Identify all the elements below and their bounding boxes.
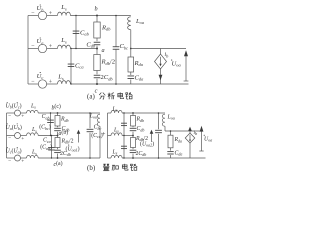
svg-text:Cca: Cca <box>43 138 51 144</box>
inductor Ls Ua(Ub) <box>27 133 39 136</box>
wire Uc to Ls <box>47 83 58 85</box>
(b)-right wire Cda down <box>170 155 172 158</box>
svg-text:Loa: Loa <box>167 115 175 121</box>
(b)-right capacitor Cbc <box>155 129 162 131</box>
(b)-right wire rail-Rda <box>170 131 172 135</box>
inductor Ls (b)-right row a <box>111 133 122 136</box>
svg-text:Ls: Ls <box>30 103 36 109</box>
capacitor Cca wire <box>70 49 72 85</box>
(b)-right resistor Rdb/2 <box>131 138 136 148</box>
capacitor Cdb <box>94 41 101 43</box>
(b)-right wire <box>132 154 134 158</box>
(b)-right wire <box>132 136 134 138</box>
wire (b)-right row b right <box>122 112 165 114</box>
(b)-right junction capline bottom <box>123 157 124 158</box>
(b)-right wire Loa down <box>164 126 166 131</box>
(b)-left capacitor 2Cdb <box>54 149 61 151</box>
output top rail wire <box>131 48 186 50</box>
(b)-left wire Rdb-Cdb <box>57 126 59 127</box>
(b)-right Uoa2 arrow <box>151 134 153 143</box>
(b)-right junction mid <box>132 135 134 137</box>
(b)-right ib up arrowhead <box>188 127 192 131</box>
wire (b)-right row a right <box>122 135 133 137</box>
junction Cab row a <box>75 48 76 49</box>
(b)-left Cab wire <box>50 113 52 136</box>
wire Loa down to rail <box>130 30 132 49</box>
(b)-right junction capline top <box>123 112 124 113</box>
svg-text:b: b <box>94 5 97 12</box>
(b)-right Uoa bottom tick <box>199 150 203 152</box>
(b)-right dependent source ib diamond <box>185 133 195 143</box>
(b)-right wire rail-ib <box>189 131 191 133</box>
dependent source ib diamond <box>155 54 167 69</box>
(b)-right junction top <box>132 112 134 114</box>
wire Ua(Ub) left <box>7 135 15 137</box>
svg-text:+: + <box>21 113 24 119</box>
svg-text:Rda: Rda <box>174 137 183 143</box>
(b)-left wire b to Rdb <box>57 113 59 116</box>
wire Rdb to Cdb <box>96 38 98 41</box>
inductor Loa <box>128 17 131 30</box>
wire (b)-right row a <box>108 135 112 137</box>
svg-text:Ua(Ub): Ua(Ub) <box>6 124 22 131</box>
(b)-right junction rail-Rda <box>170 130 172 132</box>
wire b-row to Loa corner <box>70 15 130 17</box>
wire a-row left <box>28 48 38 50</box>
circuit (a) left rail wire <box>27 16 29 85</box>
inductor Ls Ub(Uc) <box>27 110 39 113</box>
wire c-row left <box>28 83 38 85</box>
capacitor Cbc wire lower <box>115 49 117 84</box>
(b)-left node c(a) <box>57 157 59 159</box>
svg-text:2Cdb: 2Cdb <box>136 151 147 157</box>
svg-text:+: + <box>21 158 24 164</box>
wire b to Rdb <box>96 16 98 23</box>
(b)-left inductor Loa <box>97 114 100 126</box>
(b)-right wire <box>170 148 172 151</box>
voltage source Ub(Uc) <box>15 110 21 116</box>
capacitor Cbc <box>113 46 120 48</box>
capacitor Cab <box>73 30 80 32</box>
wire Cdb to node a <box>96 46 98 49</box>
(b)-right Uoa2 arrowhead <box>150 130 154 134</box>
(b)-right junction Cbc bottom <box>158 157 160 159</box>
svg-text:+: + <box>102 130 106 138</box>
(b)-right wire b-Rdb <box>132 113 134 116</box>
(b)-left Cbc wire lower <box>89 133 91 158</box>
wire Uc(Ua) right <box>38 157 100 159</box>
(b)-left wire Rdb2-2Cdb <box>57 148 59 150</box>
bottom rail node c wire <box>70 83 188 85</box>
(b)-left rail wire <box>6 113 8 158</box>
voltage source Uc(Ua) <box>15 155 21 161</box>
(b)-left capacitor Cbc <box>87 128 94 130</box>
wire Rda to Cda <box>130 72 132 75</box>
svg-text:Rdb/2: Rdb/2 <box>61 138 74 144</box>
(b)-right capacitor 2Cdb <box>130 149 137 151</box>
capacitor Cda <box>128 75 135 77</box>
node c <box>96 83 98 85</box>
(b)-right capacitor Cda <box>167 151 173 153</box>
svg-text:(b): (b) <box>87 164 96 172</box>
junction Cab row b <box>75 15 76 16</box>
junction Cca row a <box>70 48 71 49</box>
Uoa arrow line <box>185 56 187 81</box>
(b)-right Uoa arrow line <box>201 132 203 152</box>
node b <box>96 15 98 17</box>
(b)-right resistor Rdb <box>131 116 136 127</box>
node a <box>96 48 98 50</box>
(b)-left capacitor Cca <box>48 147 55 149</box>
(b)-right capacitor Cca <box>121 145 127 147</box>
(b)-right junction Cbc top <box>158 112 160 114</box>
inductor Ls (b)-right row c rail <box>111 155 122 158</box>
svg-text:Ls: Ls <box>113 127 119 133</box>
svg-text:Loa: Loa <box>89 114 97 120</box>
(b)-right Cbc wire lower <box>158 134 160 158</box>
inductor Ls row c <box>58 81 71 84</box>
ib current arrowhead <box>159 75 163 80</box>
svg-text:a(b): a(b) <box>59 129 69 137</box>
(b)-right Cca wire <box>123 136 125 159</box>
wire Cda to bottom rail <box>130 80 132 85</box>
wire Rdb2 to 2Cdb <box>96 71 98 75</box>
(b)-right capacitor Cab <box>121 122 127 124</box>
(b)-right output rail wire <box>165 130 202 132</box>
ib internal arrow <box>160 57 162 65</box>
wire Ub(Uc) left <box>7 112 15 114</box>
capacitor Cab wire <box>75 16 77 49</box>
svg-text:Rdb: Rdb <box>60 117 69 123</box>
(b)-left wire a-Rdb2 <box>57 136 59 138</box>
(b)-left Uoa1 arrowhead <box>77 130 81 134</box>
(b)-left resistor Rdb <box>55 116 60 127</box>
wire a-row to node a <box>70 48 97 50</box>
svg-text:Uc(Ua): Uc(Ua) <box>6 147 22 154</box>
svg-text:Ub(Uc): Ub(Uc) <box>6 103 22 110</box>
resistor Rdb <box>94 22 100 38</box>
Uoa bottom tick <box>184 80 189 82</box>
svg-text:Ls: Ls <box>31 127 37 133</box>
svg-text:−: − <box>8 113 11 119</box>
(b)-left junction Cbc bottom <box>89 157 91 159</box>
(b)-left junction Cbc top <box>89 112 91 114</box>
wire rail to Rda <box>130 49 132 58</box>
svg-text:+: + <box>21 136 24 142</box>
resistor Rdb/2 <box>94 55 100 71</box>
inductor Ls row a <box>58 45 71 48</box>
(b)-left junction Cab top <box>50 112 51 113</box>
svg-text:Rdb: Rdb <box>136 117 145 123</box>
wire (b)-right row b <box>108 112 112 114</box>
(b)-right resistor Rda <box>168 135 173 148</box>
(b)-left capacitor Cab <box>47 119 54 121</box>
(b)-right junction bottom <box>132 157 134 159</box>
(b)-left wire Cdb-a <box>57 132 59 136</box>
svg-text:(a): (a) <box>87 92 95 100</box>
voltage source Ub <box>38 11 46 19</box>
capacitor Cbc wire upper <box>115 16 117 47</box>
capacitor Cca <box>68 63 75 65</box>
resistor Rda <box>128 57 134 72</box>
(b)-left junction Cca bottom <box>51 157 52 158</box>
(b)-right wire <box>132 148 134 150</box>
wire (b)-right row c rail <box>108 157 112 159</box>
wire b-row left <box>28 15 38 17</box>
svg-text:b(c): b(c) <box>52 103 61 111</box>
svg-text:Cab: Cab <box>42 114 50 120</box>
wire Uc(Ua) left <box>7 157 15 159</box>
(b)-right wire ib down <box>189 143 191 158</box>
svg-text:a: a <box>102 47 105 54</box>
(b)-left Cca wire <box>51 136 53 159</box>
svg-text:−: − <box>8 136 11 142</box>
(b)-left capacitor Cdb <box>54 127 61 129</box>
voltage source Ua(Ub) <box>15 133 21 139</box>
(b)-right Cab wire <box>123 113 125 136</box>
svg-text:Ls: Ls <box>112 107 118 113</box>
(b)-right capacitor Cdb <box>130 127 137 129</box>
junction Cca row c <box>70 83 71 84</box>
inductor Ls Uc(Ua) <box>27 155 39 158</box>
(b)-left resistor Rdb/2 <box>55 138 60 148</box>
wire Ub(Uc) to Ls <box>21 112 27 114</box>
(b)-left junction Cab bottom <box>50 135 51 136</box>
junction Loa rail <box>130 48 132 50</box>
wire Ua to Ls <box>47 48 58 50</box>
wire rail to ib <box>160 49 162 55</box>
(b)-left wire Loa down <box>99 126 101 158</box>
wire Ub(Uc) right <box>38 112 100 114</box>
(b)-right rail wire <box>107 113 109 158</box>
inductor Ls row b <box>58 12 71 15</box>
Uoa arrowhead <box>184 50 188 56</box>
svg-text:−: − <box>8 158 11 164</box>
(b)-right junction capline mid <box>123 135 124 136</box>
wire (b)-right row c rail right <box>122 157 205 159</box>
(b)-left Uoa1 arrow <box>78 134 80 143</box>
wire 2Cdb to node c <box>96 79 98 84</box>
junction Cbc top <box>115 15 117 17</box>
junction Cbc bottom <box>115 83 117 85</box>
(b)-right Cbc wire upper <box>158 113 160 129</box>
(b)-right wire <box>132 126 134 127</box>
(b)-right Uoa arrowhead <box>200 126 204 132</box>
(b)-right wire <box>132 132 134 136</box>
(b)-left node a(b) <box>57 135 59 137</box>
wire Ub to Ls <box>47 15 58 17</box>
svg-text:c: c <box>95 87 98 94</box>
wire Ua(Ub) to Ls <box>21 135 27 137</box>
(b)-right inductor Loa <box>162 114 165 126</box>
(b)-left junction Cca top <box>51 135 52 136</box>
svg-text:Uoa: Uoa <box>204 137 212 143</box>
(b)-right ib internal arrow <box>189 135 191 141</box>
svg-text:Ls: Ls <box>31 150 37 156</box>
capacitor 2Cdb <box>94 74 101 76</box>
wire a to Rdb2 <box>96 49 98 55</box>
(b)-left node b(c) <box>57 112 59 114</box>
wire Ua(Ub) right <box>38 135 57 137</box>
voltage source Uc <box>38 80 46 88</box>
(b)-left Cbc wire upper <box>89 113 91 128</box>
voltage source Ua <box>38 44 46 52</box>
svg-text:c(a): c(a) <box>54 160 63 168</box>
svg-text:(Cbc): (Cbc) <box>39 124 51 131</box>
svg-text:Ls: Ls <box>112 150 118 156</box>
inductor Ls (b)-right row b <box>111 110 122 113</box>
wire Uc(Ua) to Ls <box>21 157 27 159</box>
wire ib to bottom rail <box>160 69 162 84</box>
svg-text:Cdb: Cdb <box>137 126 145 132</box>
(b)-left wire 2Cdb-c <box>57 154 59 158</box>
svg-text:Cda: Cda <box>175 150 183 156</box>
